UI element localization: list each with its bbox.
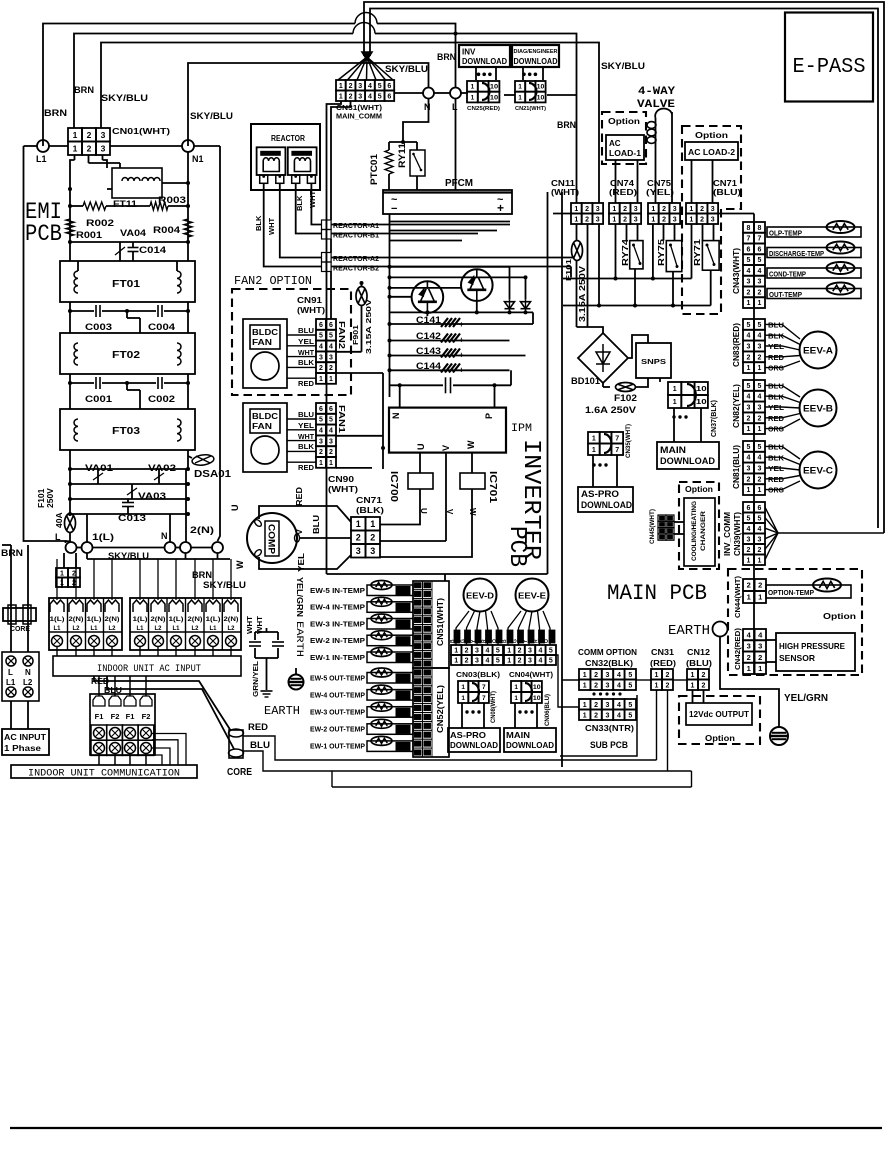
connector CN01(WHT)	[68, 128, 82, 142]
PFCM box	[383, 190, 512, 214]
svg-text:5: 5	[758, 257, 762, 264]
svg-text:MAIN_COMM: MAIN_COMM	[336, 114, 382, 121]
svg-text:RY74: RY74	[620, 239, 630, 266]
svg-text:BRN: BRN	[44, 108, 67, 118]
wire COMP W	[259, 555, 351, 569]
svg-text:2: 2	[87, 143, 92, 153]
connector CN07 download	[511, 681, 521, 692]
svg-text:1(L): 1(L)	[87, 617, 102, 623]
svg-text:OLP-TEMP: OLP-TEMP	[769, 229, 802, 238]
svg-text:3: 3	[758, 344, 762, 351]
svg-text:L1: L1	[36, 154, 47, 164]
transistor Q1	[412, 281, 444, 313]
svg-text:2: 2	[747, 581, 751, 590]
svg-text:1: 1	[689, 206, 693, 213]
wires AC LOAD-1 to CN74	[615, 160, 617, 203]
svg-text:6: 6	[319, 406, 323, 413]
svg-text:DSA01: DSA01	[194, 469, 231, 480]
svg-text:AC: AC	[609, 139, 621, 148]
REACTOR box	[251, 124, 320, 190]
wire y93 bus	[395, 92, 423, 94]
wire rail B y484	[70, 483, 188, 485]
svg-text:CN33(NTR): CN33(NTR)	[585, 723, 634, 733]
svg-text:DOWNLOAD: DOWNLOAD	[506, 740, 554, 750]
svg-text:L2: L2	[191, 626, 199, 632]
svg-text:3: 3	[758, 279, 762, 286]
svg-text:4: 4	[758, 526, 762, 533]
connector CN33	[579, 699, 590, 710]
wire fan2 wires	[287, 334, 316, 336]
svg-text:COND-TEMP: COND-TEMP	[769, 270, 806, 279]
svg-text:3: 3	[356, 546, 361, 556]
svg-text:3: 3	[758, 466, 762, 473]
svg-text:5: 5	[496, 658, 500, 665]
svg-text:BD101: BD101	[571, 376, 600, 386]
svg-text:4: 4	[758, 455, 762, 462]
connector CN25(RED)	[477, 73, 481, 77]
svg-text:R003: R003	[158, 195, 186, 205]
bottom border line	[10, 1127, 882, 1129]
svg-text:ORG: ORG	[768, 427, 785, 434]
svg-text:2: 2	[747, 476, 751, 483]
svg-text:COOLING/HEATING: COOLING/HEATING	[691, 501, 698, 561]
resistor R001	[66, 219, 74, 236]
svg-text:8: 8	[747, 225, 751, 232]
svg-text:1: 1	[689, 216, 693, 223]
svg-text:7: 7	[615, 447, 619, 454]
12Vdc OUTPUT option dashed	[679, 696, 760, 744]
svg-text:5: 5	[747, 383, 751, 390]
svg-text:SNPS: SNPS	[641, 357, 666, 366]
wire reactor bus A2	[331, 257, 574, 259]
svg-text:CN90: CN90	[328, 474, 354, 484]
svg-text:2(N): 2(N)	[188, 617, 203, 623]
Option dashed box 2	[682, 126, 741, 314]
svg-text:FT11: FT11	[113, 199, 137, 209]
svg-text:5: 5	[378, 93, 382, 100]
svg-text:YEL/GRN: YEL/GRN	[784, 693, 828, 704]
connector CN35(WHT)	[588, 432, 600, 444]
svg-text:BLU: BLU	[311, 515, 321, 534]
connector CN04(WHT)	[504, 645, 514, 655]
svg-text:5: 5	[319, 333, 323, 340]
svg-text:1: 1	[747, 593, 751, 602]
svg-text:P: P	[484, 413, 494, 419]
connector CN74	[609, 203, 620, 214]
svg-text:4: 4	[747, 394, 751, 401]
wire reactor bus B1	[331, 233, 478, 235]
svg-text:REACTOR: REACTOR	[271, 134, 305, 143]
svg-text:(RED): (RED)	[650, 659, 676, 668]
transistor Q2	[461, 269, 493, 301]
wire collector bus y312	[390, 311, 534, 313]
wire divider to CN32	[562, 679, 579, 681]
wire L drop	[455, 34, 457, 88]
AS-PRO DOWNLOAD box 2	[448, 728, 500, 752]
reactor coil 2	[288, 147, 317, 175]
wires EEV-E fan down	[508, 611, 521, 645]
svg-text:3: 3	[101, 130, 106, 140]
connector CN44	[743, 579, 755, 591]
svg-text:EW-5 IN-TEMP: EW-5 IN-TEMP	[310, 588, 365, 595]
svg-text:2: 2	[758, 289, 762, 296]
svg-text:N: N	[391, 413, 401, 420]
svg-text:F2: F2	[111, 712, 120, 721]
connector CN11	[571, 203, 582, 214]
svg-text:5: 5	[628, 712, 632, 719]
svg-text:EW-1 OUT-TEMP: EW-1 OUT-TEMP	[310, 744, 365, 751]
svg-text:DOWNLOAD: DOWNLOAD	[660, 456, 716, 466]
svg-text:4: 4	[329, 344, 333, 351]
svg-text:1: 1	[747, 487, 751, 494]
wire CN11 pin2 down	[587, 224, 589, 327]
svg-text:3: 3	[673, 216, 677, 223]
wire earth to ground	[720, 637, 779, 728]
svg-text:W: W	[235, 560, 245, 569]
svg-text:1: 1	[514, 684, 518, 691]
svg-text:(YEL): (YEL)	[646, 188, 674, 197]
svg-text:YEL/GRN: YEL/GRN	[295, 577, 305, 617]
svg-text:L1: L1	[209, 626, 217, 632]
wire SNPS to CN37	[659, 378, 661, 382]
svg-text:4: 4	[485, 658, 489, 665]
svg-text:2: 2	[747, 653, 751, 662]
svg-text:3.15A 250V: 3.15A 250V	[364, 299, 373, 354]
svg-text:YEL: YEL	[768, 344, 785, 351]
svg-text:F102: F102	[614, 393, 637, 403]
svg-text:1(L): 1(L)	[169, 617, 184, 623]
svg-text:V: V	[294, 529, 304, 535]
svg-text:3: 3	[673, 206, 677, 213]
svg-text:1: 1	[514, 695, 518, 702]
svg-text:1: 1	[454, 658, 458, 665]
svg-text:4: 4	[368, 83, 372, 90]
svg-text:1: 1	[747, 300, 751, 307]
svg-text:2: 2	[758, 415, 762, 422]
svg-text:W: W	[466, 440, 476, 449]
svg-text:VA02: VA02	[148, 463, 176, 473]
svg-text:5: 5	[496, 648, 500, 655]
svg-text:10: 10	[696, 386, 707, 393]
connector CN71(BLK)	[351, 517, 366, 531]
svg-text:2: 2	[329, 449, 333, 456]
wire CN11 pin3 to bus2	[598, 224, 600, 306]
E-PASS box	[785, 13, 873, 102]
svg-text:4: 4	[747, 268, 751, 275]
svg-text:4: 4	[617, 712, 621, 719]
INDOOR UNIT COMMUNICATION box	[11, 765, 197, 778]
wire V to CN71	[380, 540, 446, 542]
svg-text:BLU: BLU	[298, 412, 314, 419]
svg-text:EW-3 OUT-TEMP: EW-3 OUT-TEMP	[310, 710, 365, 717]
INV DOWNLOAD box	[459, 45, 510, 67]
svg-text:6: 6	[747, 246, 751, 253]
wire IPM V	[445, 453, 447, 541]
svg-text:2(N): 2(N)	[190, 525, 214, 535]
svg-text:SKY/BLU: SKY/BLU	[601, 61, 645, 72]
svg-text:10: 10	[537, 84, 545, 91]
svg-text:1: 1	[758, 365, 762, 372]
wires terminals to strip	[63, 553, 65, 568]
node N1 circle	[182, 140, 194, 152]
INDOOR UNIT AC INPUT label box	[53, 656, 241, 676]
svg-text:R004: R004	[153, 225, 180, 235]
svg-text:2: 2	[623, 206, 627, 213]
wire rail C y499	[70, 498, 188, 500]
wires to MAIN DOWNLOAD 2	[514, 703, 516, 728]
compressor COMP	[247, 513, 297, 563]
svg-text:2: 2	[666, 672, 670, 679]
svg-text:CORE: CORE	[10, 624, 30, 633]
Option dashed box 1	[602, 112, 646, 164]
svg-text:1: 1	[583, 702, 587, 709]
wire fan2 row6	[336, 372, 383, 374]
BLDC FAN motor 2 box	[243, 319, 287, 388]
svg-text:3: 3	[329, 438, 333, 445]
EEV-D motor	[464, 579, 497, 612]
svg-text:2: 2	[758, 476, 762, 483]
connector CN83(RED)	[743, 319, 754, 330]
thermistor COND-TEMP	[767, 268, 861, 278]
svg-text:RY11: RY11	[397, 143, 407, 168]
svg-text:Option: Option	[823, 611, 856, 621]
svg-text:W: W	[468, 508, 477, 516]
svg-text:C002: C002	[148, 394, 175, 404]
svg-text:U: U	[419, 508, 428, 514]
svg-text:IC700: IC700	[388, 471, 399, 503]
fuse F901	[356, 287, 367, 306]
terminal block L N	[2, 652, 39, 701]
svg-text:INDOOR UNIT COMMUNICATION: INDOOR UNIT COMMUNICATION	[28, 769, 180, 780]
wires to AS-PRO DOWNLOAD 2	[461, 703, 463, 728]
connector CN37(BLK)	[668, 382, 681, 395]
svg-text:INV_COMM: INV_COMM	[723, 512, 732, 556]
svg-text:1(L): 1(L)	[50, 617, 65, 623]
dots between CN32 CN33	[592, 692, 595, 695]
svg-text:1.6A 250V: 1.6A 250V	[585, 405, 636, 415]
svg-text:4: 4	[538, 648, 542, 655]
svg-text:2: 2	[758, 354, 762, 361]
svg-text:1: 1	[60, 570, 64, 577]
wire left verticals to core	[10, 545, 12, 652]
transformer FT11	[112, 168, 162, 198]
svg-text:FAN: FAN	[252, 422, 272, 431]
svg-text:DIAG/ENGINEER: DIAG/ENGINEER	[514, 49, 558, 55]
wire harness bundle to CN31	[338, 57, 367, 80]
svg-text:1: 1	[370, 519, 375, 529]
svg-text:3: 3	[358, 93, 362, 100]
svg-text:SKY/BLU: SKY/BLU	[101, 93, 148, 103]
connector CN03(BLK)	[451, 645, 461, 655]
svg-text:EEV-C: EEV-C	[803, 466, 834, 476]
svg-text:5: 5	[628, 702, 632, 709]
svg-text:WHT: WHT	[298, 434, 315, 441]
svg-text:3: 3	[329, 354, 333, 361]
svg-text:2: 2	[594, 672, 598, 679]
wire IPM N drop	[399, 385, 401, 407]
svg-text:1: 1	[758, 593, 762, 602]
terminal circle 4	[180, 542, 191, 553]
connector CN31(WHT) MAIN_COMM	[336, 80, 346, 91]
svg-text:FAN2: FAN2	[337, 321, 346, 350]
svg-text:CN51(WHT): CN51(WHT)	[436, 598, 445, 646]
svg-text:6: 6	[329, 406, 333, 413]
svg-text:5: 5	[747, 444, 751, 451]
svg-text:2(N): 2(N)	[105, 617, 120, 623]
svg-text:F2: F2	[142, 712, 151, 721]
svg-text:7: 7	[758, 236, 762, 243]
svg-text:2: 2	[585, 216, 589, 223]
svg-text:EEV-A: EEV-A	[803, 346, 834, 356]
svg-text:7: 7	[482, 684, 486, 691]
svg-text:5: 5	[747, 257, 751, 264]
wire relay bus 1	[563, 278, 692, 280]
wires download boxes to connectors	[475, 67, 477, 80]
EEV-A motor	[800, 332, 837, 369]
wire bus y230	[390, 230, 498, 232]
svg-text:2: 2	[585, 206, 589, 213]
wires reactor to pins	[264, 183, 322, 266]
12Vdc OUTPUT box	[686, 703, 752, 725]
svg-text:3: 3	[758, 405, 762, 412]
svg-text:L: L	[8, 668, 13, 677]
svg-text:4: 4	[319, 428, 323, 435]
svg-text:RY71: RY71	[692, 239, 702, 266]
svg-text:1: 1	[356, 519, 361, 529]
wire fan1 wires	[287, 418, 316, 420]
wire base Q2	[390, 287, 462, 289]
svg-text:2: 2	[319, 365, 323, 372]
svg-text:1: 1	[612, 206, 616, 213]
svg-text:5: 5	[329, 333, 333, 340]
svg-text:FT02: FT02	[112, 349, 140, 361]
FAN2 OPTION dashed box	[232, 289, 351, 395]
svg-text:1: 1	[758, 487, 762, 494]
svg-text:1: 1	[319, 376, 323, 383]
wire CN04 to CN33	[555, 655, 579, 707]
svg-text:(BLK): (BLK)	[356, 505, 384, 515]
svg-text:(WHT): (WHT)	[297, 306, 325, 315]
svg-text:3: 3	[528, 648, 532, 655]
wire CN75 pin1 to bus1	[652, 224, 654, 279]
wire BD101 right to SNPS	[628, 335, 648, 358]
thermistor OLP-TEMP	[767, 227, 861, 237]
wires CN01 down	[74, 155, 76, 160]
svg-text:2: 2	[662, 216, 666, 223]
thermistor OUT-TEMP	[767, 289, 861, 299]
svg-text:CN71: CN71	[713, 179, 738, 188]
connector CN52(YEL) stack	[413, 668, 449, 757]
svg-text:1: 1	[651, 216, 655, 223]
connector CN90	[316, 403, 326, 414]
svg-text:1: 1	[758, 300, 762, 307]
wire line C BRN from L1 to L	[43, 24, 355, 147]
svg-text:5: 5	[378, 83, 382, 90]
svg-text:Option: Option	[695, 131, 728, 140]
svg-text:YEL: YEL	[296, 553, 306, 572]
svg-text:1: 1	[592, 435, 596, 442]
svg-text:FAN2 OPTION: FAN2 OPTION	[234, 274, 312, 288]
svg-text:5: 5	[758, 383, 762, 390]
svg-text:10: 10	[490, 94, 499, 101]
svg-text:10: 10	[537, 94, 545, 101]
svg-text:L1: L1	[90, 626, 98, 632]
svg-text:EARTH: EARTH	[293, 621, 305, 657]
svg-text:3: 3	[596, 206, 600, 213]
svg-text:VA01: VA01	[85, 463, 113, 473]
svg-text:5: 5	[758, 444, 762, 451]
svg-text:CN81(BLU): CN81(BLU)	[732, 445, 741, 489]
svg-text:1(L): 1(L)	[133, 617, 148, 623]
svg-text:BRN: BRN	[1, 548, 23, 558]
svg-text:4: 4	[368, 93, 372, 100]
wire FT03 down rails	[69, 450, 71, 514]
svg-text:ORG: ORG	[768, 488, 785, 495]
transformer FT03	[60, 409, 195, 450]
svg-text:1: 1	[747, 426, 751, 433]
svg-text:Option: Option	[705, 734, 735, 743]
svg-text:F101: F101	[564, 259, 573, 281]
svg-text:1: 1	[747, 664, 751, 673]
svg-text:10: 10	[490, 84, 499, 91]
svg-text:EW-1 IN-TEMP: EW-1 IN-TEMP	[310, 655, 365, 662]
wire base Q1	[390, 296, 412, 298]
svg-text:2: 2	[594, 712, 598, 719]
terminal N circle	[165, 542, 176, 553]
svg-text:R001: R001	[76, 230, 102, 240]
svg-text:2: 2	[594, 682, 598, 689]
svg-text:C004: C004	[148, 322, 175, 332]
svg-text:5: 5	[747, 322, 751, 329]
svg-text:3: 3	[634, 216, 638, 223]
node N circle	[423, 88, 434, 99]
svg-text:CN01(WHT): CN01(WHT)	[112, 126, 170, 136]
MAIN DOWNLOAD box 2	[504, 728, 556, 752]
connector CN31(RED)	[651, 669, 662, 680]
svg-text:Option: Option	[685, 485, 713, 494]
svg-text:1: 1	[758, 664, 762, 673]
svg-text:YEL: YEL	[298, 339, 315, 346]
bridge rectifier BD101	[578, 333, 628, 383]
svg-text:3: 3	[475, 658, 479, 665]
svg-text:3: 3	[528, 658, 532, 665]
svg-text:CN74: CN74	[610, 179, 635, 188]
wire CN12 to CN31	[673, 679, 687, 681]
svg-text:AS-PRO: AS-PRO	[581, 489, 619, 499]
wire bus y266.8 to diode D1	[390, 266, 510, 268]
wire FT01-FT02 left	[69, 302, 71, 333]
transformer FT02	[60, 333, 195, 374]
connector CN51(WHT) stack	[413, 581, 449, 668]
wire CN11 to BD101	[577, 327, 604, 333]
svg-text:2: 2	[666, 682, 670, 689]
4-way valve coil	[655, 118, 657, 203]
svg-text:5: 5	[329, 417, 333, 424]
wire L1 row	[24, 145, 38, 147]
svg-text:CN75: CN75	[647, 179, 672, 188]
svg-text:1: 1	[691, 672, 695, 679]
svg-text:U: U	[230, 505, 240, 512]
svg-text:6: 6	[387, 93, 391, 100]
IC700 box	[408, 473, 433, 489]
svg-text:EEV-B: EEV-B	[803, 404, 834, 414]
svg-text:HIGH PRESSURE: HIGH PRESSURE	[779, 641, 845, 651]
svg-text:1: 1	[518, 84, 522, 91]
wires terminal row	[77, 547, 82, 549]
svg-text:6: 6	[329, 322, 333, 329]
connector CN42	[743, 629, 755, 640]
svg-text:2(N): 2(N)	[69, 617, 84, 623]
